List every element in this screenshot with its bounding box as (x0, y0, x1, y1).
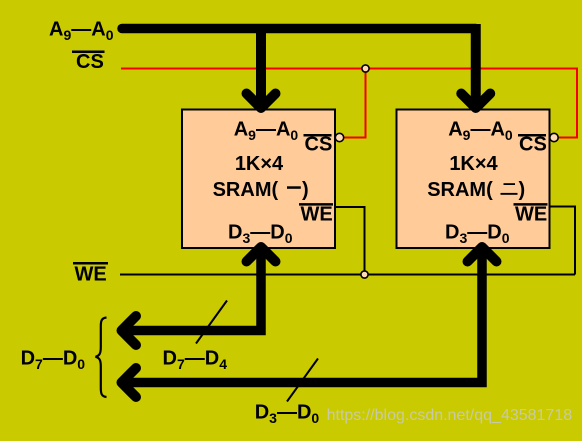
svg-text:D7—D0: D7—D0 (21, 348, 86, 373)
wire: CS red net horizontal from label to right side (121, 69, 577, 138)
SRAM chip U1 (1K×4 SRAM 一) box (182, 110, 335, 249)
svg-text:https://blog.csdn.net/qq_43581: https://blog.csdn.net/qq_43581718 (327, 407, 573, 424)
bus: address branch shaft into U1 (256, 24, 266, 106)
overline of WE label (73, 262, 108, 265)
svg-text:A9—A0: A9—A0 (49, 19, 114, 44)
arrowhead: upper data bus left (122, 316, 137, 345)
pin: U1 CS (active-low bubble) (335, 133, 343, 141)
arrowhead: lower data bus left (122, 368, 137, 397)
wire: WE branch up to U2 WE pin (550, 207, 576, 275)
bus: A9-A0 address bus horizontal (122, 24, 476, 34)
svg-text:CS: CS (305, 134, 333, 156)
overline of CS label (72, 51, 105, 54)
pin: U2 CS (active-low bubble) (550, 133, 558, 141)
overline of U1 WE (299, 203, 333, 206)
wire: WE net horizontal from label to right side (120, 274, 575, 276)
brace grouping D7-D0 (96, 318, 107, 398)
svg-text:WE: WE (75, 264, 107, 286)
CJK stroke 一 in U1 (287, 186, 301, 189)
svg-text:): ) (519, 179, 526, 201)
arrowhead: address into U2 (461, 94, 490, 109)
wire: CS red branch down to U1 CS pin (344, 69, 366, 138)
arrowhead: data up into U2 (468, 247, 497, 262)
svg-text:WE: WE (301, 204, 333, 226)
svg-text:D3—D0: D3—D0 (228, 222, 293, 247)
arrowhead: data up into U1 (247, 247, 276, 262)
svg-text:WE: WE (515, 204, 547, 226)
overline of U1 CS (304, 134, 332, 137)
bus width tick on upper data bus (196, 301, 227, 344)
bus: U2 data D3-D0 vertical+horizontal (124, 247, 482, 383)
svg-text:1K×4: 1K×4 (449, 153, 498, 175)
svg-text:D7—D4: D7—D4 (163, 348, 228, 373)
svg-text:D3—D0: D3—D0 (255, 402, 320, 427)
overline of U2 CS (518, 134, 546, 137)
svg-text:1K×4: 1K×4 (235, 153, 284, 175)
svg-text:D3—D0: D3—D0 (445, 222, 510, 247)
SRAM chip U2 (1K×4 SRAM 二) box (397, 110, 550, 249)
node: CS junction dot (362, 65, 369, 72)
node: WE junction dot (361, 271, 368, 278)
wire: WE branch up to U1 WE pin (335, 207, 365, 275)
svg-text:): ) (302, 179, 309, 201)
bus: U1 data D3-D0 vertical+horizontal (124, 247, 261, 331)
svg-text:CS: CS (76, 51, 104, 73)
CJK stroke 二 bottom bar in U2 (501, 193, 518, 195)
bus: address branch shaft into U2 (471, 24, 481, 106)
svg-text:A9—A0: A9—A0 (234, 118, 299, 143)
arrowhead: address into U1 (247, 94, 276, 109)
svg-text:CS: CS (519, 134, 547, 156)
bus width tick on lower data bus (287, 359, 318, 402)
svg-text:SRAM(: SRAM( (213, 179, 279, 201)
svg-text:SRAM(: SRAM( (427, 179, 493, 201)
svg-text:A9—A0: A9—A0 (448, 118, 513, 143)
overline of U2 WE (514, 203, 548, 206)
CJK stroke 二 top bar in U2 (504, 183, 516, 185)
